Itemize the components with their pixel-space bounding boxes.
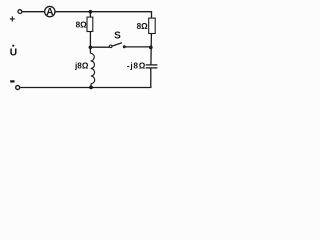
- wire node B to switch: [90, 46, 109, 48]
- svg-text:+: +: [9, 14, 15, 25]
- terminal minus (open circle): [16, 86, 20, 90]
- node C junction: [149, 46, 153, 50]
- svg-text:8Ω: 8Ω: [137, 22, 149, 31]
- label minus: [10, 80, 14, 82]
- node junction top: [89, 10, 93, 14]
- wire node B to inductor: [89, 47, 91, 53]
- inductor L1 j8ohm coil: [90, 53, 94, 83]
- resistor R2 8ohm (right): [149, 18, 156, 33]
- wire R2 to node C to capacitor: [150, 34, 153, 65]
- wire right branch top corner to R2: [151, 11, 153, 18]
- node D junction bottom: [89, 86, 93, 90]
- wire bottom rail: [20, 68, 151, 87]
- svg-text:A: A: [46, 7, 53, 18]
- resistor R1 8ohm (left): [87, 17, 93, 31]
- terminal plus (open circle): [18, 10, 22, 14]
- switch S blade: [112, 43, 122, 46]
- switch S contact dot: [123, 45, 126, 48]
- svg-text:j8Ω: j8Ω: [74, 61, 89, 70]
- ammeter A1: [45, 6, 55, 16]
- capacitor C1 -j8ohm plates: [146, 64, 158, 66]
- svg-text:U: U: [10, 48, 17, 59]
- svg-text:8Ω: 8Ω: [76, 21, 88, 30]
- svg-text:-j8Ω: -j8Ω: [127, 62, 146, 71]
- wire top rail left segment: [22, 11, 44, 13]
- svg-text:S: S: [114, 31, 121, 42]
- wire inductor to node D: [90, 84, 92, 88]
- wire R1 to node B: [89, 32, 91, 48]
- node B junction: [89, 45, 93, 49]
- wire junction to R1: [89, 12, 91, 17]
- wire top rail right segment: [55, 11, 151, 13]
- switch S open circle: [109, 45, 112, 48]
- wire switch to node C: [124, 46, 151, 48]
